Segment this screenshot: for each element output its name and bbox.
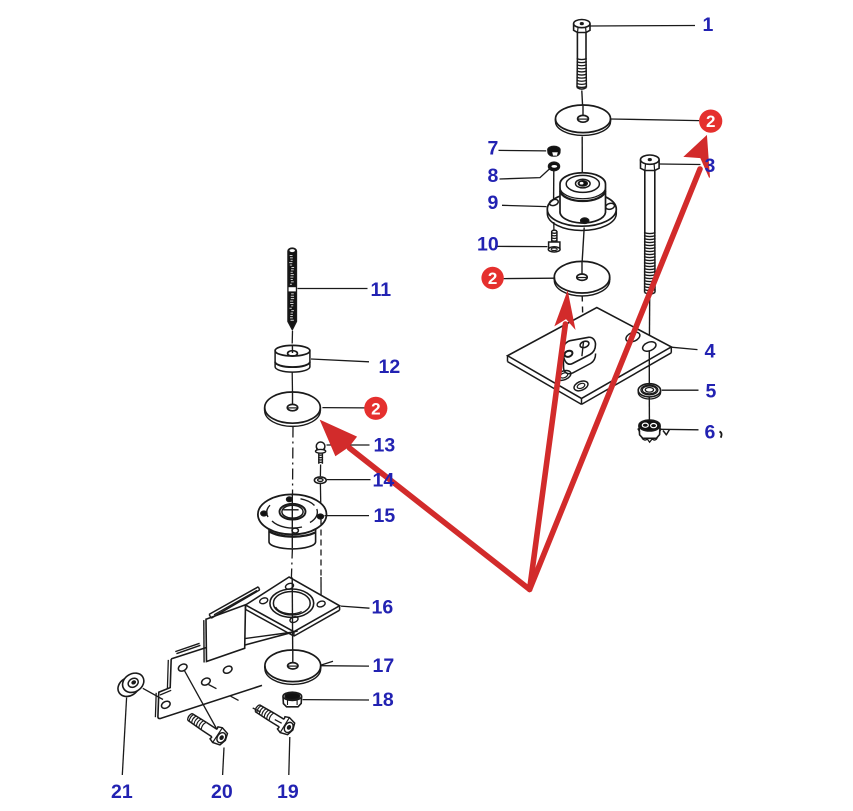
leader line 14 — [327, 479, 371, 481]
part number label 7 — [488, 138, 499, 160]
red arrow to red circle 2 top-right — [530, 136, 710, 589]
leader line 2 middle — [504, 277, 555, 279]
spacer 12 — [275, 345, 310, 372]
part number label 19 — [277, 781, 299, 803]
leader line 20 — [223, 748, 224, 776]
svg-text:5: 5 — [706, 381, 717, 403]
bolt 1 — [574, 20, 590, 90]
part number label 10 — [477, 234, 499, 256]
part number label 9 — [488, 192, 499, 214]
red circle label 2 (top right) — [699, 110, 722, 133]
leader line 5 — [662, 389, 699, 391]
part number label 13 — [374, 435, 396, 457]
mount 15 — [258, 494, 327, 549]
part number label 4 — [705, 341, 716, 363]
red circle label 2 (left) — [364, 397, 387, 420]
wire washer8 to flange — [553, 170, 555, 200]
svg-text:3: 3 — [705, 155, 716, 177]
wire bolt13 axis (dashed) — [320, 520, 322, 577]
part number label 6 — [705, 422, 716, 444]
svg-text:4: 4 — [705, 341, 716, 363]
part number label 3 — [705, 155, 716, 177]
leader line 21 — [122, 698, 126, 776]
mount 9 — [547, 173, 616, 231]
bracket 16 top plate — [246, 577, 340, 636]
wire bolt3 to plate4 — [648, 296, 650, 343]
washer 14 — [314, 477, 326, 484]
washer 2 (top) — [556, 105, 611, 135]
svg-text:1: 1 — [703, 14, 714, 36]
svg-text:9: 9 — [488, 192, 499, 214]
svg-text:7: 7 — [488, 138, 499, 160]
bolt 20 — [184, 709, 230, 748]
wire washer5 to nut6 — [648, 397, 650, 419]
wire washer2mid to plate4 (dashed) — [582, 296, 583, 341]
leader line 18 — [303, 699, 369, 701]
part number label 5 — [706, 381, 717, 403]
part number label 11 — [371, 279, 392, 301]
washer 17 — [265, 650, 321, 684]
svg-text:17: 17 — [373, 655, 395, 677]
svg-text:19: 19 — [277, 781, 299, 803]
plate 4 — [508, 308, 672, 405]
red circle label 2 (middle) — [481, 267, 503, 289]
nut 7 — [548, 146, 560, 156]
leader line 6 — [661, 428, 699, 431]
part number label 21 — [111, 781, 133, 803]
svg-text:16: 16 — [372, 597, 394, 619]
nut 6 — [638, 420, 661, 442]
wire plate4 to washer5 — [648, 351, 650, 383]
leader line 9 — [502, 205, 547, 206]
svg-text:13: 13 — [374, 435, 396, 457]
leader line 12 — [311, 359, 369, 362]
bolt 3 — [641, 155, 660, 294]
leader line 1 — [590, 25, 695, 28]
wire washer2top to mount9 — [581, 137, 583, 181]
svg-text:11: 11 — [371, 279, 392, 301]
leader line 16 — [341, 606, 370, 608]
comma mark 6 — [720, 432, 722, 438]
leader line 8 — [500, 168, 551, 179]
svg-text:8: 8 — [488, 165, 499, 187]
svg-text:2: 2 — [706, 112, 715, 131]
washer 2 (middle) — [554, 261, 609, 296]
wire band to bolt19 (dashed) — [209, 685, 285, 725]
bracket 16 gusset — [204, 605, 246, 663]
washer 8 — [548, 162, 559, 171]
part number label 14 — [373, 470, 395, 492]
part number label 20 — [211, 781, 233, 803]
svg-text:6: 6 — [705, 422, 716, 444]
svg-text:15: 15 — [374, 505, 396, 527]
leader line 7 — [499, 149, 547, 152]
wire bolt13 to washer14 — [319, 465, 321, 477]
leader line 4 — [671, 347, 697, 349]
wire flange to bolt10 — [553, 222, 555, 230]
leader line 15 — [325, 515, 370, 517]
wire plate16 to washer17 — [291, 578, 294, 651]
svg-text:12: 12 — [379, 356, 401, 378]
bracket 16 band — [155, 631, 333, 719]
wire mount9 to washer2mid — [582, 228, 584, 263]
washer 5 — [638, 384, 660, 399]
nut 18 — [283, 692, 302, 707]
wire band to bolt20 — [184, 670, 219, 734]
leader line 19 — [289, 737, 290, 775]
part number label 12 — [379, 356, 401, 378]
washer 2 (left) — [265, 392, 321, 426]
leader line 11 — [298, 288, 368, 290]
part number label 17 — [373, 655, 395, 677]
svg-text:18: 18 — [372, 689, 394, 711]
wire bolt1 axis — [581, 91, 584, 107]
leader line 2 top-right — [610, 119, 699, 121]
bracket 16 strip flange — [209, 587, 260, 618]
leader line 2 left — [322, 407, 364, 409]
red arrow to washer 2 left — [321, 421, 530, 590]
wire bushing21 to band — [143, 688, 163, 699]
wire bolt13 axis lower — [320, 577, 322, 601]
svg-text:2: 2 — [371, 399, 380, 418]
svg-text:20: 20 — [211, 781, 233, 803]
tick mark k6 — [663, 430, 670, 436]
part number label 1 — [703, 14, 714, 36]
red arrow to washer 2 middle — [530, 292, 575, 589]
svg-text:10: 10 — [477, 234, 499, 256]
bolt 13 — [316, 442, 326, 464]
bolt 19 — [252, 700, 298, 737]
wire mount15 to plate16 (dash-dot) — [291, 549, 292, 578]
part number label 8 — [488, 165, 499, 187]
svg-text:14: 14 — [373, 470, 395, 492]
svg-text:2: 2 — [488, 269, 497, 288]
leader line 3 — [660, 163, 701, 166]
bushing 21 — [114, 669, 147, 700]
bolt 10 — [548, 230, 560, 252]
wire stud11 to spacer12 — [291, 331, 293, 344]
part number label 15 — [374, 505, 396, 527]
svg-text:21: 21 — [111, 781, 133, 803]
wire spacer12 to washer2left — [291, 373, 293, 394]
wire washer14 to mount15 — [319, 484, 322, 512]
part number label 16 — [372, 597, 394, 619]
part number label 18 — [372, 689, 394, 711]
leader line 13 — [327, 444, 370, 446]
wire washer2left to mount15 (dash-dot) — [292, 427, 295, 497]
leader line 17 — [320, 665, 369, 667]
leader line 10 — [495, 245, 547, 247]
stud 11 — [288, 248, 297, 330]
